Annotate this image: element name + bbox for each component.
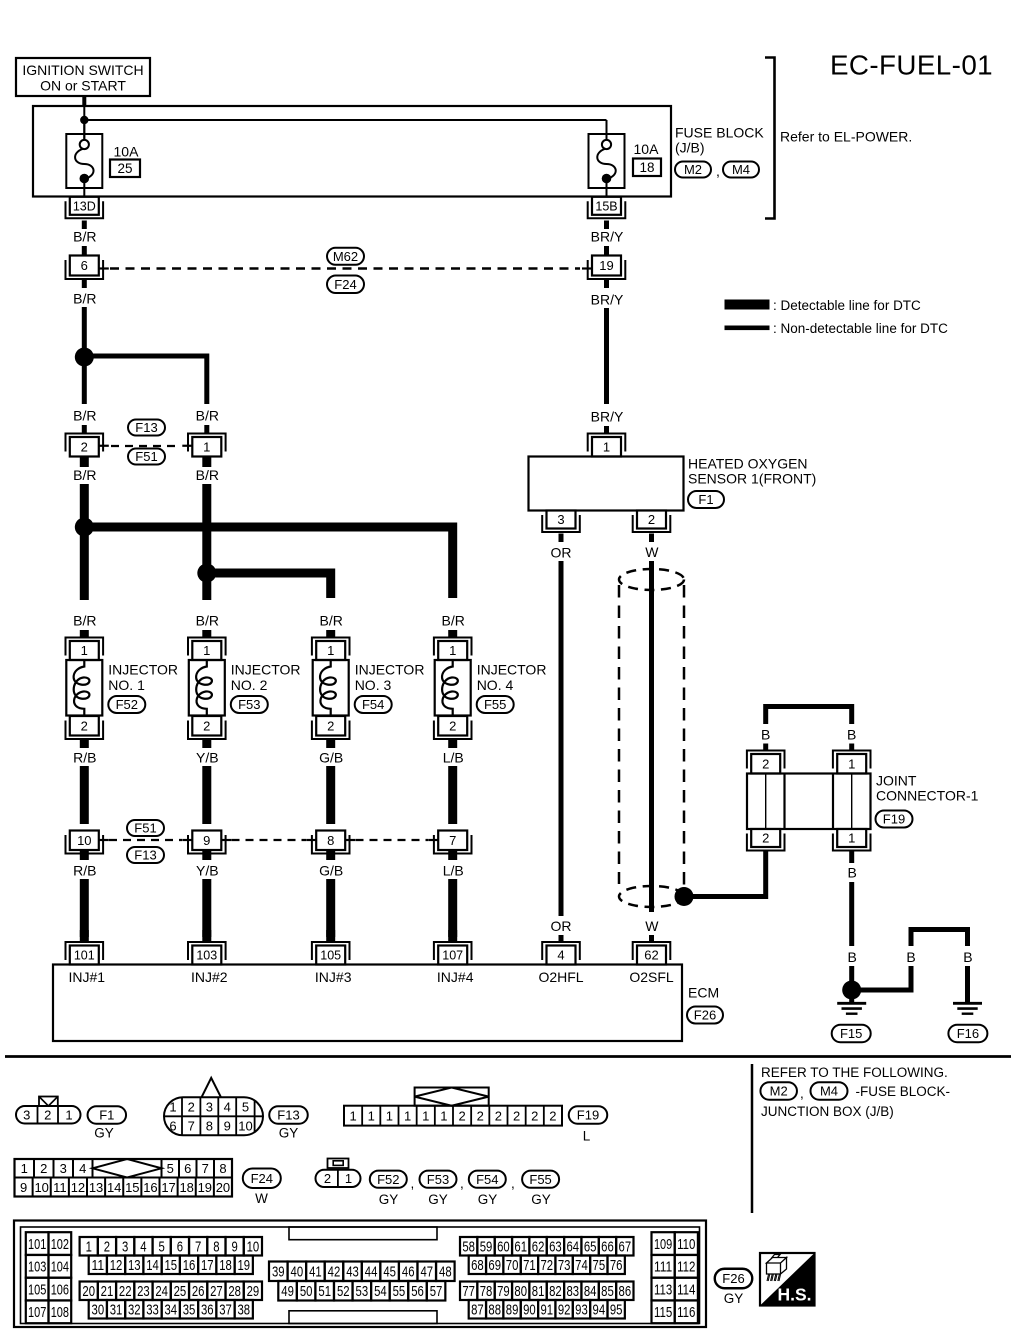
connector 9 (F51/F13) bbox=[182, 831, 231, 854]
svg-text:53: 53 bbox=[356, 1283, 369, 1300]
separator line bbox=[5, 1055, 1011, 1058]
wire BR/Y: connector 19 down to HO2S bbox=[604, 280, 609, 405]
connector ref M4 (footer) bbox=[811, 1082, 848, 1100]
note divider line bbox=[751, 1064, 754, 1213]
HO2S connector 3 bbox=[542, 511, 580, 533]
svg-text:105: 105 bbox=[320, 949, 341, 963]
label INJECTOR NO. 3 bbox=[355, 662, 425, 694]
svg-text:-FUSE BLOCK-: -FUSE BLOCK- bbox=[856, 1084, 951, 1099]
node: injector feed junction 1 bbox=[75, 518, 94, 537]
wire stub into joint pin 1 top bbox=[849, 744, 854, 752]
label INJECTOR NO. 2 bbox=[231, 662, 301, 694]
svg-text:JOINT: JOINT bbox=[876, 773, 917, 789]
svg-text:58: 58 bbox=[462, 1239, 475, 1256]
svg-text:10: 10 bbox=[77, 833, 91, 848]
wire B/R: 13D to connector 6 bbox=[82, 221, 87, 230]
svg-text:115: 115 bbox=[654, 1304, 672, 1321]
svg-text:INJ#4: INJ#4 bbox=[437, 969, 474, 985]
svg-text:1: 1 bbox=[81, 643, 88, 658]
svg-text:2: 2 bbox=[477, 1109, 484, 1124]
wire B/R (detectable): connector 2 to injector junction bbox=[80, 457, 89, 523]
svg-text:27: 27 bbox=[210, 1283, 223, 1300]
svg-text:12: 12 bbox=[110, 1257, 123, 1274]
connector ref F13 bbox=[127, 847, 164, 863]
wire stub into ECM pin 105 bbox=[326, 930, 335, 942]
svg-text:,: , bbox=[716, 163, 720, 179]
label FUSE BLOCK (J/B) bbox=[675, 125, 764, 156]
svg-text:7: 7 bbox=[195, 1239, 201, 1256]
label INJECTOR NO. 4 bbox=[477, 662, 547, 694]
svg-text:37: 37 bbox=[219, 1302, 232, 1319]
svg-text:B: B bbox=[847, 727, 856, 743]
svg-text:14: 14 bbox=[146, 1257, 159, 1274]
svg-text:13: 13 bbox=[89, 1180, 103, 1195]
ECM pin 101 bbox=[66, 942, 104, 965]
svg-text:5: 5 bbox=[167, 1161, 174, 1176]
svg-text:25: 25 bbox=[174, 1283, 187, 1300]
svg-text:INJECTOR: INJECTOR bbox=[477, 662, 547, 678]
ECM pin 62 bbox=[633, 942, 671, 965]
svg-text:GY: GY bbox=[531, 1192, 551, 1207]
svg-text:15: 15 bbox=[164, 1257, 177, 1274]
connector ref M62 bbox=[327, 248, 364, 265]
svg-text:BR/Y: BR/Y bbox=[591, 292, 624, 308]
svg-text:1: 1 bbox=[203, 643, 210, 658]
svg-text:86: 86 bbox=[619, 1283, 632, 1300]
svg-text:19: 19 bbox=[237, 1257, 250, 1274]
svg-text:F19: F19 bbox=[577, 1108, 599, 1123]
svg-text:2: 2 bbox=[549, 1109, 556, 1124]
svg-text:B: B bbox=[761, 727, 770, 743]
connector ref F1 bbox=[688, 491, 724, 508]
svg-text:1: 1 bbox=[404, 1109, 411, 1124]
ECM pin 107 bbox=[434, 942, 472, 965]
svg-text:43: 43 bbox=[346, 1264, 359, 1281]
connector ref F55 bbox=[477, 696, 514, 713]
svg-text:36: 36 bbox=[201, 1302, 214, 1319]
svg-text:F52: F52 bbox=[377, 1172, 399, 1187]
svg-text:107: 107 bbox=[28, 1304, 46, 1321]
svg-text:M2: M2 bbox=[770, 1084, 788, 1099]
svg-text:92: 92 bbox=[558, 1302, 571, 1319]
svg-text:B/R: B/R bbox=[73, 408, 96, 424]
svg-text:F26: F26 bbox=[694, 1008, 716, 1023]
connector ref F55 (view) bbox=[522, 1171, 559, 1188]
svg-text:14: 14 bbox=[107, 1180, 121, 1195]
svg-text:29: 29 bbox=[247, 1283, 260, 1300]
svg-text:2: 2 bbox=[513, 1109, 520, 1124]
svg-text:10A: 10A bbox=[634, 141, 660, 157]
svg-text:F13: F13 bbox=[135, 420, 157, 435]
svg-text:H.S.: H.S. bbox=[777, 1285, 811, 1305]
connector ref F13 bbox=[128, 420, 165, 436]
svg-text:106: 106 bbox=[51, 1281, 69, 1298]
wire: fuse block internal feed bus bbox=[84, 107, 606, 140]
svg-text:B/R: B/R bbox=[196, 467, 219, 483]
svg-text:74: 74 bbox=[575, 1257, 588, 1274]
svg-text:62: 62 bbox=[532, 1239, 545, 1256]
wire R/B: connector 10 to ECM pin 101 bbox=[80, 850, 89, 937]
svg-text:1: 1 bbox=[603, 439, 610, 454]
connector view F52 (2 1) bbox=[316, 1159, 361, 1188]
svg-text:2: 2 bbox=[203, 718, 210, 733]
svg-text:11: 11 bbox=[53, 1180, 67, 1195]
svg-text:,: , bbox=[460, 1176, 464, 1191]
svg-text:46: 46 bbox=[402, 1264, 415, 1281]
wire OR: HO2S-3 down to ECM O2HFL bbox=[559, 534, 564, 943]
wire G/B: connector 8 to ECM pin 105 bbox=[326, 850, 335, 937]
svg-text:1: 1 bbox=[440, 1109, 447, 1124]
connector 19 bbox=[582, 256, 625, 280]
svg-text:91: 91 bbox=[540, 1302, 553, 1319]
svg-text:19: 19 bbox=[198, 1180, 212, 1195]
connector 10 (F51/F13) bbox=[66, 831, 109, 854]
svg-text:INJECTOR: INJECTOR bbox=[108, 662, 178, 678]
svg-text:47: 47 bbox=[420, 1264, 433, 1281]
svg-text:72: 72 bbox=[540, 1257, 553, 1274]
joint connector-1 pin 1 (top) bbox=[833, 751, 871, 774]
connector view F1 (3 2 1) bbox=[16, 1097, 81, 1124]
svg-text:: Non-detectable line for DTC: : Non-detectable line for DTC bbox=[773, 321, 948, 336]
legend: detectable line for DTC bbox=[725, 298, 921, 313]
wire stub into injector no.1 pin 1 bbox=[80, 630, 89, 638]
connector ref F53 (view) bbox=[420, 1171, 457, 1188]
svg-text:16: 16 bbox=[143, 1180, 157, 1195]
svg-text:ECM: ECM bbox=[688, 985, 719, 1001]
svg-text:R/B: R/B bbox=[73, 863, 96, 879]
wire B/R: junction down to connector 2 bbox=[82, 357, 87, 404]
svg-text:OR: OR bbox=[551, 918, 572, 934]
svg-text:G/B: G/B bbox=[319, 863, 343, 879]
svg-text:24: 24 bbox=[155, 1283, 168, 1300]
bracket for fuse block note bbox=[765, 58, 775, 219]
svg-text:68: 68 bbox=[471, 1257, 484, 1274]
connector ref F13 (view) bbox=[269, 1106, 308, 1124]
svg-text:: Detectable line for DTC: : Detectable line for DTC bbox=[773, 298, 921, 313]
shield (dashed) around W wire bbox=[619, 569, 684, 907]
svg-text:95: 95 bbox=[610, 1302, 623, 1319]
connector 1 (F13/F51) bbox=[182, 434, 225, 457]
svg-text:49: 49 bbox=[281, 1283, 294, 1300]
svg-text:G/B: G/B bbox=[319, 750, 343, 766]
svg-text:1: 1 bbox=[349, 1109, 356, 1124]
svg-text:BR/Y: BR/Y bbox=[591, 409, 624, 425]
svg-text:8: 8 bbox=[206, 1119, 213, 1134]
svg-text:2: 2 bbox=[762, 756, 769, 771]
wire B/R: connector 6 down to junction bbox=[82, 280, 87, 353]
injector no.3 pin 1 bbox=[312, 638, 350, 661]
svg-text:32: 32 bbox=[128, 1302, 141, 1319]
svg-text:30: 30 bbox=[92, 1302, 105, 1319]
svg-text:19: 19 bbox=[599, 258, 613, 273]
wire B/R bus to injector no.3 column bbox=[207, 573, 331, 598]
svg-text:NO. 1: NO. 1 bbox=[108, 677, 145, 693]
svg-text:1: 1 bbox=[848, 756, 855, 771]
svg-text:64: 64 bbox=[566, 1239, 579, 1256]
node: B/R junction bbox=[75, 348, 94, 367]
svg-text:66: 66 bbox=[601, 1239, 614, 1256]
wire stub into connector 1 bbox=[204, 425, 209, 434]
svg-text:1: 1 bbox=[368, 1109, 375, 1124]
svg-text:GY: GY bbox=[379, 1192, 399, 1207]
ground ref F16 bbox=[948, 1025, 987, 1043]
svg-text:11: 11 bbox=[92, 1257, 105, 1274]
connector ref F54 (view) bbox=[469, 1171, 506, 1188]
fuse number box 18 bbox=[633, 159, 661, 177]
connector 6 bbox=[66, 256, 109, 280]
joint connector-1 pin 2 (bottom) bbox=[747, 829, 785, 851]
svg-text:83: 83 bbox=[566, 1283, 579, 1300]
legend: non-detectable line for DTC bbox=[725, 321, 948, 336]
svg-text:F13: F13 bbox=[134, 848, 156, 863]
injector no.3 pin 2 bbox=[312, 716, 350, 739]
svg-text:9: 9 bbox=[20, 1180, 27, 1195]
connector ref M2 (footer) bbox=[760, 1082, 797, 1100]
wire B/R: junction 1 down to injector no.1 bbox=[80, 527, 89, 600]
svg-text:F52: F52 bbox=[116, 697, 138, 712]
svg-text:94: 94 bbox=[593, 1302, 606, 1319]
svg-text:113: 113 bbox=[654, 1281, 672, 1298]
connector 15B bbox=[588, 197, 626, 219]
svg-text:23: 23 bbox=[137, 1283, 150, 1300]
svg-text:59: 59 bbox=[480, 1239, 493, 1256]
HO2S connector 1 bbox=[588, 434, 626, 457]
wire B/R: junction branch to connector 1 column bbox=[84, 356, 207, 404]
svg-text:O2HFL: O2HFL bbox=[538, 969, 583, 985]
svg-text:81: 81 bbox=[532, 1283, 545, 1300]
svg-text:7: 7 bbox=[449, 833, 456, 848]
ECM pin 4 bbox=[542, 942, 580, 965]
svg-text:F55: F55 bbox=[484, 697, 506, 712]
connector ref F52 (view) bbox=[370, 1171, 407, 1188]
svg-text:REFER TO THE FOLLOWING.: REFER TO THE FOLLOWING. bbox=[761, 1065, 948, 1080]
svg-text:12: 12 bbox=[71, 1180, 85, 1195]
svg-text:NO. 4: NO. 4 bbox=[477, 677, 514, 693]
svg-text:B/R: B/R bbox=[320, 613, 343, 629]
svg-text:38: 38 bbox=[237, 1302, 250, 1319]
svg-text:116: 116 bbox=[677, 1304, 695, 1321]
svg-text:21: 21 bbox=[101, 1283, 114, 1300]
dashed link connector 6 to 19 bbox=[110, 267, 580, 269]
svg-text:8: 8 bbox=[213, 1239, 219, 1256]
svg-text:F19: F19 bbox=[883, 812, 905, 827]
svg-text:22: 22 bbox=[119, 1283, 132, 1300]
wire stub into injector no.4 pin 1 bbox=[448, 630, 457, 638]
svg-text:85: 85 bbox=[601, 1283, 614, 1300]
svg-text:SENSOR 1(FRONT): SENSOR 1(FRONT) bbox=[688, 471, 816, 487]
svg-text:10: 10 bbox=[247, 1239, 260, 1256]
wire stub into ECM pin 101 bbox=[80, 930, 89, 942]
svg-text:CONNECTOR-1: CONNECTOR-1 bbox=[876, 788, 979, 804]
svg-text:77: 77 bbox=[462, 1283, 475, 1300]
connector ref F51 bbox=[128, 449, 165, 465]
svg-text:W: W bbox=[645, 544, 659, 560]
svg-text:2: 2 bbox=[188, 1100, 195, 1115]
svg-text:Y/B: Y/B bbox=[196, 750, 219, 766]
svg-text:18: 18 bbox=[219, 1257, 232, 1274]
svg-text:B/R: B/R bbox=[73, 229, 96, 245]
fuse 18 (10A) bbox=[589, 120, 625, 198]
svg-text:FUSE BLOCK: FUSE BLOCK bbox=[675, 125, 764, 141]
ground ref F15 bbox=[832, 1025, 871, 1043]
svg-text:101: 101 bbox=[74, 949, 95, 963]
svg-text:60: 60 bbox=[497, 1239, 510, 1256]
svg-text:57: 57 bbox=[430, 1283, 443, 1300]
ECM pin 103 bbox=[188, 942, 226, 965]
svg-text:1: 1 bbox=[327, 643, 334, 658]
svg-text:B/R: B/R bbox=[73, 613, 96, 629]
svg-text:,: , bbox=[511, 1176, 515, 1191]
connector 2 (F13/F51) bbox=[66, 434, 109, 457]
wire G/B: injector no.3 to connector 8 bbox=[326, 739, 335, 824]
wire W: HO2S-2 down to ECM O2SFL (shielded) bbox=[649, 534, 654, 943]
connector ref F24 (view) bbox=[243, 1168, 281, 1188]
svg-text:L/B: L/B bbox=[443, 750, 464, 766]
svg-text:INJ#3: INJ#3 bbox=[315, 969, 352, 985]
injector no.3 coil bbox=[313, 660, 349, 716]
svg-text:55: 55 bbox=[393, 1283, 406, 1300]
svg-text:78: 78 bbox=[480, 1283, 493, 1300]
svg-text:1: 1 bbox=[422, 1109, 429, 1124]
svg-text:50: 50 bbox=[300, 1283, 313, 1300]
svg-text:10: 10 bbox=[34, 1180, 48, 1195]
svg-text:5: 5 bbox=[242, 1100, 249, 1115]
svg-text:1: 1 bbox=[386, 1109, 393, 1124]
svg-text:O2SFL: O2SFL bbox=[629, 969, 674, 985]
svg-text:GY: GY bbox=[94, 1126, 114, 1141]
svg-text:44: 44 bbox=[365, 1264, 378, 1281]
svg-text:GY: GY bbox=[279, 1126, 299, 1141]
svg-text:R/B: R/B bbox=[73, 750, 96, 766]
svg-text:F26: F26 bbox=[722, 1271, 744, 1286]
svg-text:10: 10 bbox=[238, 1119, 252, 1134]
svg-text:3: 3 bbox=[23, 1107, 30, 1122]
svg-text:HEATED OXYGEN: HEATED OXYGEN bbox=[688, 456, 808, 472]
svg-text:Refer to EL-POWER.: Refer to EL-POWER. bbox=[780, 129, 912, 145]
svg-text:6: 6 bbox=[169, 1119, 176, 1134]
svg-text:2: 2 bbox=[449, 718, 456, 733]
svg-text:26: 26 bbox=[192, 1283, 205, 1300]
wire stub into connector 2 bbox=[82, 425, 87, 434]
svg-text:108: 108 bbox=[51, 1304, 69, 1321]
connector ref F24 bbox=[327, 276, 364, 294]
wire into connector 6 bbox=[82, 246, 87, 256]
svg-text:B: B bbox=[848, 949, 857, 965]
svg-text:F1: F1 bbox=[99, 1108, 114, 1123]
svg-text:13D: 13D bbox=[73, 199, 96, 213]
svg-text:1: 1 bbox=[65, 1107, 72, 1122]
svg-text:42: 42 bbox=[328, 1264, 341, 1281]
connector view F19 (1x6 2x6) bbox=[344, 1088, 562, 1126]
svg-text:3: 3 bbox=[206, 1100, 213, 1115]
svg-text:3: 3 bbox=[122, 1239, 128, 1256]
label HEATED OXYGEN SENSOR 1(FRONT) bbox=[688, 456, 816, 487]
svg-text:F53: F53 bbox=[238, 697, 260, 712]
fuse block (J/B) box bbox=[33, 106, 671, 197]
connector 8 (F51/F13) bbox=[306, 831, 355, 854]
svg-text:15: 15 bbox=[125, 1180, 139, 1195]
svg-text:54: 54 bbox=[374, 1283, 387, 1300]
svg-text:9: 9 bbox=[224, 1119, 231, 1134]
wire into connector 19 bbox=[604, 246, 609, 256]
connector view F13 (1-10) bbox=[164, 1078, 263, 1135]
svg-text:45: 45 bbox=[383, 1264, 396, 1281]
svg-text:(J/B): (J/B) bbox=[675, 140, 705, 156]
node: shield drain junction bbox=[675, 887, 694, 906]
svg-text:73: 73 bbox=[558, 1257, 571, 1274]
svg-text:88: 88 bbox=[488, 1302, 501, 1319]
wire L/B: injector no.4 to connector 7 bbox=[448, 739, 457, 824]
svg-text:56: 56 bbox=[411, 1283, 424, 1300]
svg-text:INJECTOR: INJECTOR bbox=[231, 662, 301, 678]
svg-text:5: 5 bbox=[159, 1239, 165, 1256]
heated oxygen sensor 1 (front) box U/F1 bbox=[529, 457, 684, 511]
svg-text:2: 2 bbox=[104, 1239, 110, 1256]
wire stub into joint pin 2 top bbox=[763, 744, 768, 752]
svg-text:Y/B: Y/B bbox=[196, 863, 219, 879]
ECM pin 105 bbox=[312, 942, 350, 965]
svg-text:B/R: B/R bbox=[442, 613, 465, 629]
svg-text:107: 107 bbox=[442, 949, 463, 963]
svg-text:70: 70 bbox=[506, 1257, 519, 1274]
svg-text:103: 103 bbox=[28, 1259, 46, 1276]
svg-text:3: 3 bbox=[60, 1161, 67, 1176]
svg-text:20: 20 bbox=[216, 1180, 230, 1195]
joint connector-1 body bbox=[747, 774, 871, 830]
wire B/R (detectable): connector 1 down to junction 2 bbox=[202, 457, 211, 569]
svg-text:4: 4 bbox=[140, 1239, 146, 1256]
connector view F24 (1-20) bbox=[15, 1159, 233, 1197]
ECM connector view F26 grid bbox=[14, 1221, 706, 1328]
svg-text:71: 71 bbox=[523, 1257, 536, 1274]
svg-text:JUNCTION BOX (J/B): JUNCTION BOX (J/B) bbox=[761, 1104, 894, 1119]
wire R/B: injector no.1 to connector 10 bbox=[80, 739, 89, 824]
svg-text:35: 35 bbox=[183, 1302, 196, 1319]
svg-text:8: 8 bbox=[219, 1161, 226, 1176]
svg-text:87: 87 bbox=[471, 1302, 484, 1319]
svg-text:B: B bbox=[848, 865, 857, 881]
svg-text:F54: F54 bbox=[476, 1172, 498, 1187]
svg-text:F15: F15 bbox=[840, 1026, 862, 1041]
wire stub into ECM pin 103 bbox=[202, 930, 211, 942]
svg-text:2: 2 bbox=[40, 1161, 47, 1176]
svg-text:OR: OR bbox=[551, 545, 572, 561]
svg-text:7: 7 bbox=[202, 1161, 209, 1176]
injector no.2 pin 1 bbox=[188, 638, 226, 661]
svg-text:1: 1 bbox=[21, 1161, 28, 1176]
svg-text:NO. 3: NO. 3 bbox=[355, 677, 392, 693]
svg-text:F24: F24 bbox=[251, 1171, 273, 1186]
svg-text:61: 61 bbox=[514, 1239, 527, 1256]
svg-text:102: 102 bbox=[51, 1236, 69, 1253]
svg-text:B/R: B/R bbox=[73, 291, 96, 307]
injector no.2 pin 2 bbox=[188, 716, 226, 739]
svg-text:F53: F53 bbox=[427, 1172, 449, 1187]
fuse 25 (10A) bbox=[66, 120, 102, 198]
svg-text:80: 80 bbox=[514, 1283, 527, 1300]
svg-text:2: 2 bbox=[495, 1109, 502, 1124]
ignition switch box IGNITION SWITCH ON or START bbox=[16, 58, 150, 96]
svg-text:4: 4 bbox=[79, 1161, 86, 1176]
svg-text:4: 4 bbox=[557, 948, 564, 963]
svg-text:L: L bbox=[583, 1129, 591, 1144]
svg-text:B: B bbox=[963, 949, 972, 965]
wire stub into injector no.2 pin 1 bbox=[202, 630, 211, 638]
svg-text:W: W bbox=[645, 918, 659, 934]
fuse number box 25 bbox=[110, 160, 140, 178]
svg-text:2: 2 bbox=[531, 1109, 538, 1124]
wire: shield drain to joint connector-1 pin 2 bbox=[684, 851, 766, 897]
